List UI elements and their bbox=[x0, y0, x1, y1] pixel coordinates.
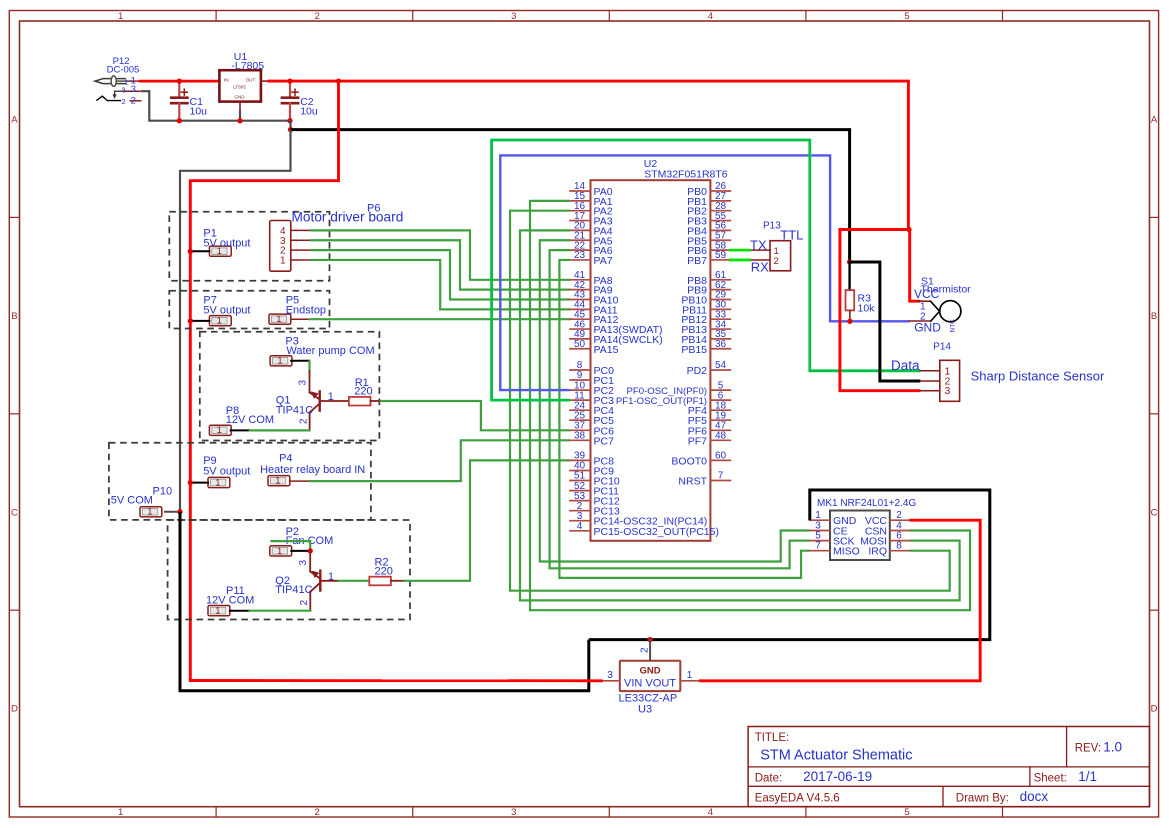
svg-text:12V COM: 12V COM bbox=[226, 414, 274, 426]
svg-text:Motor driver board: Motor driver board bbox=[292, 210, 404, 225]
svg-text:Water pump COM: Water pump COM bbox=[286, 345, 374, 357]
svg-text:1: 1 bbox=[277, 546, 282, 557]
module MK1 NRF24L01 body bbox=[830, 511, 890, 561]
wire P1 to 5V rail bbox=[190, 250, 209, 252]
connector P13 bbox=[750, 241, 791, 271]
svg-text:A: A bbox=[1151, 115, 1158, 126]
svg-text:GND: GND bbox=[234, 94, 245, 99]
wire gray jack pin3 down bbox=[141, 91, 291, 121]
connector P10 bbox=[140, 507, 162, 517]
svg-text:Endstop: Endstop bbox=[286, 305, 326, 317]
svg-text:P4: P4 bbox=[279, 453, 292, 465]
svg-text:MISO: MISO bbox=[833, 546, 860, 558]
svg-text:TITLE:: TITLE: bbox=[755, 732, 790, 744]
svg-text:MK1 NRF24L01+2.4G: MK1 NRF24L01+2.4G bbox=[817, 498, 916, 509]
wire red NRF VCC bbox=[699, 520, 980, 681]
junction C2 top bbox=[287, 78, 292, 83]
wire red bottom rail to U3 VIN bbox=[190, 679, 601, 682]
junction VCC node bbox=[906, 227, 911, 232]
junction red top at x338 bbox=[336, 78, 341, 83]
junction P10 bbox=[177, 509, 182, 514]
wire red right drop to VCC node bbox=[908, 81, 909, 229]
svg-text:1: 1 bbox=[328, 571, 334, 583]
svg-text:2: 2 bbox=[299, 600, 310, 606]
svg-text:5V output: 5V output bbox=[203, 465, 250, 477]
svg-text:OUT: OUT bbox=[246, 78, 256, 83]
svg-text:2: 2 bbox=[315, 11, 320, 22]
P12 pin 3 stub bbox=[125, 90, 141, 92]
svg-text:LT805: LT805 bbox=[233, 85, 246, 90]
svg-text:1: 1 bbox=[276, 314, 281, 325]
svg-text:VOUT: VOUT bbox=[645, 678, 676, 690]
resistor R1 220 bbox=[349, 397, 380, 406]
connector P6 bbox=[270, 221, 310, 272]
wire black left rail down bbox=[180, 512, 589, 691]
svg-text:BOOT0: BOOT0 bbox=[671, 455, 707, 467]
junction C1 top bbox=[177, 78, 182, 83]
svg-text:DC-005: DC-005 bbox=[107, 65, 140, 76]
dashed group box P7/P5 bbox=[169, 291, 329, 329]
wire PA6 to SCK drop bbox=[550, 250, 810, 568]
connector P4 bbox=[268, 476, 290, 486]
U2 right pins bbox=[616, 181, 731, 487]
svg-text:TX: TX bbox=[750, 237, 767, 252]
IC U2 STM32F051R8T6 body bbox=[591, 180, 711, 541]
svg-text:B: B bbox=[11, 311, 17, 322]
thermistor S1 bbox=[910, 301, 961, 322]
svg-text:IN: IN bbox=[224, 78, 229, 83]
connector P8 bbox=[209, 425, 231, 435]
wire black top rail bbox=[291, 130, 850, 262]
regulator U1 -L7805 bbox=[219, 70, 261, 101]
svg-text:1: 1 bbox=[328, 391, 334, 403]
svg-text:C: C bbox=[1151, 507, 1158, 518]
svg-text:PC7: PC7 bbox=[594, 435, 615, 447]
svg-text:3: 3 bbox=[511, 807, 516, 818]
svg-text:P13: P13 bbox=[763, 220, 781, 231]
wire red VCC node to thermistor pin1 bbox=[908, 230, 911, 302]
svg-text:STM Actuator Shematic: STM Actuator Shematic bbox=[760, 748, 912, 764]
svg-text:IRQ: IRQ bbox=[868, 546, 887, 558]
svg-text:1: 1 bbox=[217, 425, 222, 436]
wire red VCC node to P14 pin3 bbox=[840, 230, 921, 391]
wire P6 pin1 to PA11 bbox=[310, 260, 570, 309]
svg-text:5: 5 bbox=[904, 11, 909, 22]
connector P9 bbox=[208, 477, 230, 487]
ruler letters left bbox=[11, 115, 18, 715]
svg-text:D: D bbox=[1151, 704, 1158, 715]
svg-text:Date:: Date: bbox=[755, 773, 783, 785]
U1 OUT stub bbox=[261, 80, 269, 82]
svg-text:PA15: PA15 bbox=[594, 344, 619, 356]
wire black branch to P14 pin2 bbox=[850, 262, 921, 381]
wire black NRF ground loop bbox=[589, 490, 990, 640]
wire RX PB7 to P13 bbox=[730, 259, 749, 262]
dashed group box P9/P4/P10 bbox=[109, 443, 371, 520]
svg-text:7: 7 bbox=[718, 471, 724, 482]
wire R2 to PC8 bbox=[403, 460, 570, 580]
svg-text:2: 2 bbox=[920, 312, 926, 323]
svg-text:2: 2 bbox=[122, 97, 126, 106]
svg-text:4: 4 bbox=[708, 807, 713, 818]
capacitor C1 bbox=[171, 81, 187, 121]
connector P11 bbox=[208, 606, 230, 616]
svg-text:2017-06-19: 2017-06-19 bbox=[803, 769, 872, 784]
junction P7 bbox=[188, 318, 193, 323]
svg-text:VCC: VCC bbox=[914, 287, 940, 301]
svg-text:TIP41C: TIP41C bbox=[275, 584, 312, 596]
ruler ticks top/bottom bbox=[216, 11, 1002, 818]
svg-text:P10: P10 bbox=[153, 485, 173, 497]
svg-text:1/1: 1/1 bbox=[1078, 769, 1097, 784]
dashed group box P2/Q2 bbox=[168, 520, 410, 620]
svg-text:5V COM: 5V COM bbox=[111, 494, 153, 506]
svg-text:B: B bbox=[1151, 311, 1157, 322]
svg-text:A: A bbox=[11, 115, 18, 126]
svg-text:10u: 10u bbox=[300, 105, 318, 117]
U3 pin stubs bbox=[601, 680, 620, 682]
svg-text:-L7805: -L7805 bbox=[231, 60, 264, 72]
transistor Q1 TIP41C bbox=[310, 371, 349, 430]
wire P6 pin3 to PA9 bbox=[310, 240, 570, 289]
connector P3 bbox=[270, 356, 292, 366]
ruler numbers bottom bbox=[118, 807, 910, 818]
ruler letters right bbox=[1151, 115, 1158, 715]
wire Q2 base to R2 bbox=[339, 580, 370, 582]
wire black R3 top lead bbox=[848, 262, 850, 290]
wire P8 to Q1 emitter bbox=[231, 429, 250, 431]
wire P10 to gray rail bbox=[165, 511, 180, 513]
U1 GND lead bbox=[239, 102, 241, 112]
svg-text:3: 3 bbox=[511, 11, 516, 22]
connector P5 bbox=[269, 314, 291, 324]
dashed group box P1/P6 bbox=[169, 212, 329, 281]
wire P9 to 5V rail bbox=[190, 482, 208, 484]
svg-text:60: 60 bbox=[715, 451, 727, 462]
wire PA1 to CSN drop bbox=[530, 201, 970, 610]
svg-text:1: 1 bbox=[280, 256, 286, 267]
svg-text:38: 38 bbox=[574, 431, 586, 442]
svg-text:PA7: PA7 bbox=[594, 255, 613, 267]
wire P11 to Q2 emitter bbox=[230, 610, 250, 612]
svg-text:PF7: PF7 bbox=[688, 435, 707, 447]
P12 pin 2 stub bbox=[130, 100, 141, 102]
wire P2 to junction bbox=[291, 550, 310, 552]
svg-text:7: 7 bbox=[815, 541, 821, 552]
wire TX PB6 to P13 bbox=[730, 249, 749, 252]
svg-text:1: 1 bbox=[217, 316, 222, 327]
svg-text:Heater relay board IN: Heater relay board IN bbox=[260, 464, 365, 476]
junction Q2 collector bbox=[308, 548, 313, 553]
wire P6 pin2 to PA10 bbox=[310, 250, 570, 299]
NRF pins bbox=[810, 510, 910, 558]
svg-text:10k: 10k bbox=[858, 303, 876, 315]
svg-text:U3: U3 bbox=[638, 704, 652, 716]
wire red jack pin1 to U1 IN bbox=[140, 80, 219, 83]
U2 left pins bbox=[570, 181, 719, 538]
svg-text:59: 59 bbox=[715, 250, 727, 261]
svg-text:Data: Data bbox=[891, 358, 920, 373]
svg-text:2: 2 bbox=[640, 647, 651, 653]
wire P7 to 5V rail bbox=[190, 320, 209, 322]
wire red U1 OUT across top bbox=[269, 80, 908, 83]
svg-text:PB15: PB15 bbox=[681, 344, 707, 356]
svg-text:4: 4 bbox=[708, 11, 713, 22]
svg-text:Drawn By:: Drawn By: bbox=[956, 793, 1009, 805]
ruler ticks left/right bbox=[9, 217, 1158, 610]
svg-text:NTC: NTC bbox=[950, 319, 957, 333]
svg-text:1: 1 bbox=[277, 356, 282, 367]
junction U3 GND tap bbox=[647, 637, 652, 642]
svg-text:NRST: NRST bbox=[678, 476, 707, 488]
wire R1 to PC6 bbox=[380, 401, 570, 430]
regulator U3 LE33CZ-AP bbox=[620, 661, 681, 691]
transistor Q2 TIP41C bbox=[310, 551, 338, 611]
wire gray to left rail bbox=[180, 130, 291, 512]
wire vivid green PC3 Data loop bbox=[492, 140, 921, 400]
svg-text:10u: 10u bbox=[190, 105, 208, 117]
svg-text:48: 48 bbox=[715, 431, 727, 442]
junction P1 bbox=[188, 249, 193, 254]
svg-text:4: 4 bbox=[577, 521, 583, 532]
svg-text:3: 3 bbox=[298, 560, 309, 566]
svg-text:VIN: VIN bbox=[624, 678, 642, 690]
svg-text:3: 3 bbox=[945, 385, 951, 397]
svg-text:1: 1 bbox=[118, 807, 123, 818]
wire gray C2 to black node bbox=[289, 121, 291, 130]
svg-text:3: 3 bbox=[607, 670, 613, 681]
junction C2 bottom bbox=[287, 118, 292, 123]
svg-text:2: 2 bbox=[131, 95, 136, 106]
connector P2 bbox=[270, 546, 292, 556]
svg-text:1: 1 bbox=[215, 606, 220, 617]
junction black node bbox=[288, 127, 293, 132]
title block bbox=[748, 727, 1149, 807]
svg-text:GND: GND bbox=[639, 666, 660, 677]
svg-text:1: 1 bbox=[687, 670, 693, 681]
svg-text:1: 1 bbox=[118, 11, 123, 22]
svg-text:54: 54 bbox=[715, 360, 727, 371]
svg-text:1.0: 1.0 bbox=[1103, 740, 1122, 755]
svg-text:1: 1 bbox=[215, 477, 220, 488]
connector P12 DC-005 barrel jack symbol bbox=[95, 76, 130, 101]
connector P14 bbox=[920, 360, 959, 401]
wire P6 pin4 to PA8 bbox=[310, 230, 570, 279]
svg-text:23: 23 bbox=[574, 250, 586, 261]
wire PA7 to MISO drop bbox=[559, 260, 809, 578]
svg-text:220: 220 bbox=[375, 565, 393, 577]
svg-text:EasyEDA V4.5.6: EasyEDA V4.5.6 bbox=[755, 793, 840, 805]
U3 pin labels bbox=[607, 647, 693, 681]
svg-text:220: 220 bbox=[354, 385, 372, 397]
wire P4 to PC7 bbox=[309, 440, 570, 481]
svg-text:5V output: 5V output bbox=[203, 237, 250, 249]
svg-text:8: 8 bbox=[896, 541, 902, 552]
Q2 labels bbox=[275, 560, 334, 606]
svg-text:1: 1 bbox=[147, 507, 152, 518]
svg-text:2: 2 bbox=[298, 418, 309, 424]
svg-text:RX: RX bbox=[751, 260, 769, 275]
svg-text:TTL: TTL bbox=[780, 228, 803, 243]
junction R3 bottom bbox=[847, 319, 852, 324]
svg-text:docx: docx bbox=[1020, 789, 1049, 804]
dashed group box P3/Q1 bbox=[200, 332, 380, 441]
wire green P2 spur bbox=[270, 541, 310, 551]
svg-text:REV:: REV: bbox=[1075, 743, 1101, 755]
junction C1 bottom bbox=[177, 118, 182, 123]
wire P5 to PA12 bbox=[310, 318, 571, 320]
svg-text:2: 2 bbox=[315, 807, 320, 818]
connector P7 bbox=[209, 316, 231, 326]
connector P1 bbox=[209, 246, 231, 256]
svg-text:GND: GND bbox=[914, 320, 941, 334]
svg-text:1: 1 bbox=[275, 476, 280, 487]
title block texts bbox=[755, 732, 1122, 805]
U3 pin2 lead bbox=[649, 640, 651, 661]
wire red drop to left rail bbox=[190, 81, 338, 680]
svg-text:5V output: 5V output bbox=[203, 304, 250, 316]
svg-text:P14: P14 bbox=[933, 342, 951, 353]
S1 labels bbox=[914, 275, 971, 334]
svg-text:50: 50 bbox=[574, 339, 586, 350]
resistor R2 220 bbox=[369, 577, 403, 586]
svg-text:PD2: PD2 bbox=[687, 365, 708, 377]
svg-text:3: 3 bbox=[298, 380, 309, 386]
wire blue PC2 to thermistor GND bbox=[500, 155, 909, 390]
svg-text:Sheet:: Sheet: bbox=[1034, 773, 1067, 785]
svg-text:2: 2 bbox=[774, 256, 779, 267]
wire PA5 to CE drop bbox=[540, 240, 810, 561]
P12 labels bbox=[107, 56, 140, 106]
wire P3 to Q1 collector bbox=[291, 360, 309, 362]
svg-text:5: 5 bbox=[904, 807, 909, 818]
svg-text:12V COM: 12V COM bbox=[206, 594, 254, 606]
junction black R3 top bbox=[847, 259, 852, 264]
svg-text:36: 36 bbox=[715, 339, 727, 350]
P4 pin stub bbox=[290, 480, 309, 482]
svg-text:PB7: PB7 bbox=[687, 255, 707, 267]
wire PA4 to MOSI drop bbox=[520, 230, 960, 600]
junction U1 GND bbox=[237, 118, 242, 123]
P12 pin 1 stub bbox=[130, 80, 140, 82]
Q1 labels bbox=[276, 380, 334, 425]
svg-text:STM32F051R8T6: STM32F051R8T6 bbox=[644, 169, 728, 181]
junction P9 bbox=[188, 480, 193, 485]
resistor R3 10k bbox=[846, 290, 855, 321]
svg-text:PC15-OSC32_OUT(PC15): PC15-OSC32_OUT(PC15) bbox=[594, 526, 719, 538]
wire PA2 to IRQ drop bbox=[510, 211, 950, 591]
svg-text:3: 3 bbox=[131, 84, 136, 95]
svg-text:C: C bbox=[11, 507, 18, 518]
svg-text:Sharp Distance Sensor: Sharp Distance Sensor bbox=[971, 369, 1105, 384]
ruler numbers top bbox=[118, 11, 910, 22]
svg-text:D: D bbox=[11, 704, 18, 715]
svg-text:3: 3 bbox=[122, 85, 126, 94]
capacitor C2 bbox=[282, 81, 298, 121]
P5 pin stub bbox=[291, 318, 310, 320]
svg-text:TIP41C: TIP41C bbox=[276, 404, 313, 416]
